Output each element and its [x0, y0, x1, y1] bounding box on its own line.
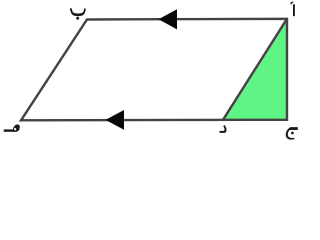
- label alef-hamza (top-right vertex): [290, 2, 295, 17]
- green shaded triangle (A D C): [223, 19, 287, 120]
- label dal (point D on bottom edge): [220, 125, 227, 133]
- label beh (top-left vertex): [70, 8, 86, 20]
- segment A-D (hypotenuse of green triangle): [223, 19, 287, 120]
- top arrow (pointing left on segment B-A): [159, 9, 178, 29]
- trapezoid outline B A C E (wires: top, right, bottom, left-diagonal): [21, 19, 287, 121]
- bottom arrow (pointing left on segment E-C): [106, 110, 125, 130]
- label jeem (bottom-right vertex): [286, 127, 298, 140]
- label heh+tatweel (bottom-left vertex): [4, 124, 20, 132]
